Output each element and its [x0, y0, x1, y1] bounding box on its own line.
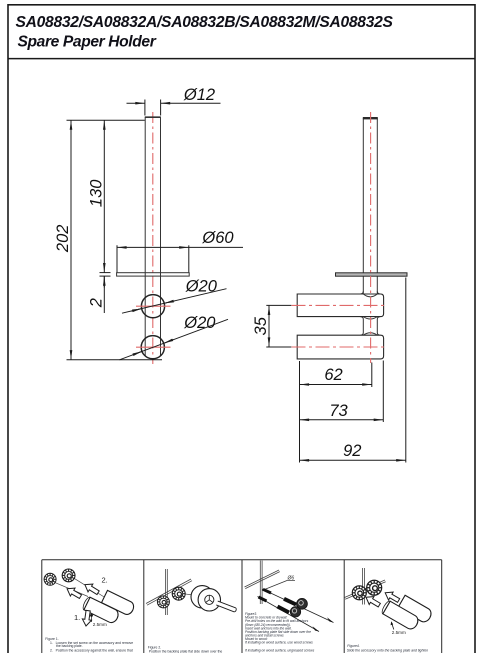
- leader O20 circle2: [120, 319, 229, 360]
- svg-text:Ø12: Ø12: [183, 86, 215, 104]
- panel2 caption: [148, 646, 223, 653]
- svg-text:130: 130: [88, 179, 106, 207]
- svg-text:2: 2: [88, 298, 106, 308]
- dimension O12: [127, 100, 221, 116]
- centerline arm1 (red): [292, 304, 387, 306]
- panel4 label 2.5mm: [392, 630, 406, 635]
- panel divider 4: [441, 560, 443, 653]
- centerline arm2 (red): [292, 346, 387, 348]
- text O60: [201, 229, 234, 247]
- panel2 wall vertical line: [165, 569, 167, 615]
- title text: [16, 14, 394, 51]
- svg-text:2.: 2.: [102, 576, 108, 585]
- svg-text:Ø20: Ø20: [185, 278, 218, 296]
- dimension 202: [67, 120, 163, 360]
- text 202: [54, 225, 72, 254]
- centerline rod side (red): [370, 112, 372, 363]
- text O20 first: [185, 278, 218, 296]
- panel divider 0: [41, 560, 43, 653]
- panel1 block arrow down: [81, 610, 92, 627]
- panel1 caption: [45, 637, 133, 653]
- panel4 front cylinder: [381, 600, 421, 631]
- centerline circle 2 (red): [136, 346, 171, 348]
- flange plate side view: [336, 273, 408, 276]
- panel4 block arrow A: [364, 593, 382, 609]
- panel2 rod stub: [216, 601, 237, 612]
- text 73: [329, 402, 348, 420]
- panel1 label 1.: [74, 613, 80, 622]
- panel1 knob B: [62, 569, 75, 582]
- panel1 screw axis lines: [55, 578, 105, 597]
- dimension 92: [300, 278, 406, 463]
- panel2 escutcheon front circle: [198, 589, 220, 611]
- panel1 block arrow A: [65, 585, 83, 601]
- panel4 rear cylinder: [398, 595, 434, 624]
- dimension 2 (plate thickness): [100, 273, 111, 313]
- panel2 screw link line: [183, 594, 193, 595]
- panel4 wall diagonal line: [345, 580, 386, 599]
- dimension 35: [266, 305, 291, 347]
- strip top border: [42, 559, 442, 561]
- dimension 130: [103, 120, 105, 272]
- centerline circle 1 (red): [136, 305, 171, 307]
- svg-text:73: 73: [329, 402, 348, 420]
- svg-text:SA08832/SA08832A/SA08832B/SA08: SA08832/SA08832A/SA08832B/SA08832M/SA088…: [16, 14, 394, 31]
- svg-text:Spare Paper Holder: Spare Paper Holder: [18, 34, 157, 51]
- rod fillet at arm1 top: [360, 291, 380, 294]
- panel1 label 2.5mm: [93, 622, 107, 627]
- panel4 knob A: [352, 586, 366, 600]
- panel2 escutcheon rear circle: [191, 586, 213, 608]
- text 62: [324, 366, 342, 384]
- dimension O60: [117, 245, 243, 272]
- rod side view: [363, 118, 378, 295]
- svg-text:1.: 1.: [74, 613, 80, 622]
- rod neck between arms: [360, 317, 380, 336]
- title divider: [8, 58, 475, 60]
- panel1 knob A: [44, 573, 56, 585]
- panel4 pointer arrow: [391, 621, 394, 629]
- text O20 second: [183, 314, 216, 332]
- panel3 label O6 with leader: [262, 576, 295, 591]
- svg-text:Ø60: Ø60: [201, 229, 234, 247]
- circle hole 1 front: [141, 295, 164, 318]
- panel1 block arrow B: [82, 581, 100, 597]
- panel1 label 2.: [102, 576, 108, 585]
- panel4 wall vertical line: [363, 568, 365, 605]
- panel3 wall vertical line: [260, 561, 262, 605]
- holder arm 2 side view: [297, 335, 383, 359]
- panel4 caption: [347, 644, 428, 652]
- panel1 rear cylinder: [102, 590, 136, 616]
- text 92: [343, 442, 361, 460]
- panel divider 1: [143, 560, 145, 653]
- circle hole 2 front: [141, 336, 164, 359]
- dimension 62: [300, 361, 372, 463]
- panel2 knob A: [157, 596, 169, 608]
- panel1 front cylinder: [82, 596, 121, 624]
- holder arm 1 side view: [297, 294, 383, 317]
- panel1 pointer dot: [90, 614, 93, 622]
- svg-text:2.5mm: 2.5mm: [392, 630, 406, 635]
- panel2 knob B: [172, 587, 185, 600]
- panel4 knob B: [367, 580, 382, 595]
- svg-text:62: 62: [324, 366, 342, 384]
- rod-arm junction arcs: [363, 294, 377, 335]
- panel3 caption: [245, 612, 315, 652]
- panel4 block arrow B: [383, 589, 401, 605]
- svg-text:2.5mm: 2.5mm: [93, 622, 107, 627]
- panel2 wall diagonal line: [146, 579, 192, 605]
- text 130: [88, 179, 106, 207]
- text O12: [183, 86, 215, 104]
- panel3 wall diagonal line: [245, 570, 280, 589]
- panel divider 2: [241, 560, 243, 653]
- centerline rod front (red): [152, 112, 154, 364]
- text 35: [252, 316, 270, 335]
- svg-text:92: 92: [343, 442, 361, 460]
- svg-text:2. Position the accessory ag: 2. Position the accessory against the wa…: [50, 649, 133, 653]
- svg-text:202: 202: [54, 225, 72, 254]
- dimension 73: [300, 361, 384, 423]
- svg-text:Slide the accessory onto the b: Slide the accessory onto the backing pla…: [347, 648, 428, 652]
- rod front view: [145, 117, 161, 356]
- svg-text:35: 35: [252, 316, 270, 335]
- svg-text:If installing on wood surface,: If installing on wood surface, ungreased…: [245, 648, 315, 652]
- flange plate front view: [117, 273, 190, 276]
- panel3 screw assembly B: [258, 597, 320, 632]
- svg-text:the backing plate.: the backing plate.: [56, 644, 83, 648]
- svg-text:Ø20: Ø20: [183, 314, 216, 332]
- panel divider 3: [343, 560, 345, 653]
- svg-text:If installing on wood surface,: If installing on wood surface, use wood …: [245, 641, 313, 645]
- leader O20 circle1: [122, 289, 227, 314]
- svg-text:Position the backing plate fla: Position the backing plate flat side dow…: [149, 649, 223, 653]
- text 2: [88, 298, 106, 308]
- panel3 screw assembly A: [262, 589, 334, 623]
